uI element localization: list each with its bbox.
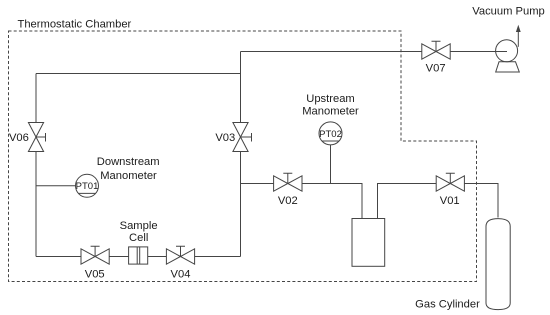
svg-text:Manometer: Manometer bbox=[302, 106, 359, 118]
vacuum pump bbox=[496, 25, 521, 72]
pipe: PT02 drop line bbox=[330, 145, 332, 184]
svg-text:Upstream: Upstream bbox=[306, 93, 355, 105]
pipe: V02 to vessel left bbox=[302, 184, 362, 219]
pipe: V03 vertical above bbox=[240, 52, 242, 123]
valve V03 bbox=[233, 123, 252, 152]
pipe: left vertical (above V06) bbox=[35, 74, 37, 123]
svg-text:Cell: Cell bbox=[129, 232, 148, 244]
svg-text:V05: V05 bbox=[85, 268, 105, 280]
pipe: PT01 stub bbox=[36, 185, 76, 187]
reference volume vessel bbox=[352, 219, 385, 267]
svg-text:Downstream: Downstream bbox=[97, 156, 160, 168]
svg-text:Gas Cylinder: Gas Cylinder bbox=[415, 298, 480, 310]
pipe: V03 vertical below to bottom pipe bbox=[240, 152, 242, 257]
valve V02 bbox=[274, 173, 302, 191]
valve V06 bbox=[28, 123, 45, 152]
svg-text:V01: V01 bbox=[440, 195, 460, 207]
pipe: V02 line from V03 riser bbox=[241, 183, 274, 185]
pipe: top downstream header bbox=[36, 73, 241, 75]
svg-text:PT02: PT02 bbox=[319, 129, 342, 140]
valve V01 bbox=[436, 173, 464, 191]
pipe: V01 to gas cylinder bbox=[464, 184, 498, 218]
svg-text:Sample: Sample bbox=[120, 220, 158, 232]
svg-text:V06: V06 bbox=[9, 132, 29, 144]
sample cell bbox=[129, 247, 148, 264]
svg-text:V04: V04 bbox=[171, 268, 191, 280]
pipe: vacuum header (V03 riser to V07) bbox=[241, 51, 422, 53]
svg-text:Thermostatic Chamber: Thermostatic Chamber bbox=[18, 19, 132, 31]
svg-text:V07: V07 bbox=[426, 63, 446, 75]
svg-text:V03: V03 bbox=[215, 132, 235, 144]
svg-text:Manometer: Manometer bbox=[100, 170, 157, 182]
pipe: left vertical (below V06 to bottom pipe) bbox=[35, 152, 37, 257]
valve V07 bbox=[422, 41, 450, 59]
pipe: V05 to sample cell bbox=[109, 256, 128, 258]
pipe: vessel right riser to V01 bbox=[378, 184, 437, 219]
gas cylinder bbox=[486, 219, 510, 310]
pipe: bottom line left of V05 bbox=[36, 256, 81, 258]
valve V05 bbox=[81, 246, 109, 264]
svg-text:Vacuum Pump: Vacuum Pump bbox=[472, 5, 545, 17]
svg-text:V02: V02 bbox=[278, 195, 298, 207]
pipe: V07 to vacuum pump bbox=[450, 51, 507, 53]
thermostatic chamber boundary (dashed) bbox=[9, 31, 477, 282]
pressure transmitter PT02 bbox=[319, 122, 342, 145]
pipe: sample cell to V04 bbox=[148, 256, 167, 258]
pipe: V04 to right riser bbox=[195, 256, 241, 258]
svg-text:PT01: PT01 bbox=[76, 181, 99, 192]
valve V04 bbox=[166, 246, 194, 264]
pressure transmitter PT01 bbox=[76, 174, 99, 197]
